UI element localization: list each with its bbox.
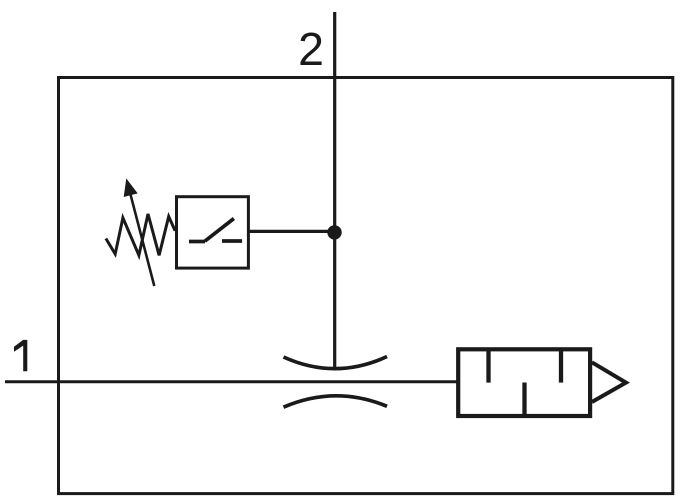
svg-text:2: 2 <box>298 23 324 75</box>
